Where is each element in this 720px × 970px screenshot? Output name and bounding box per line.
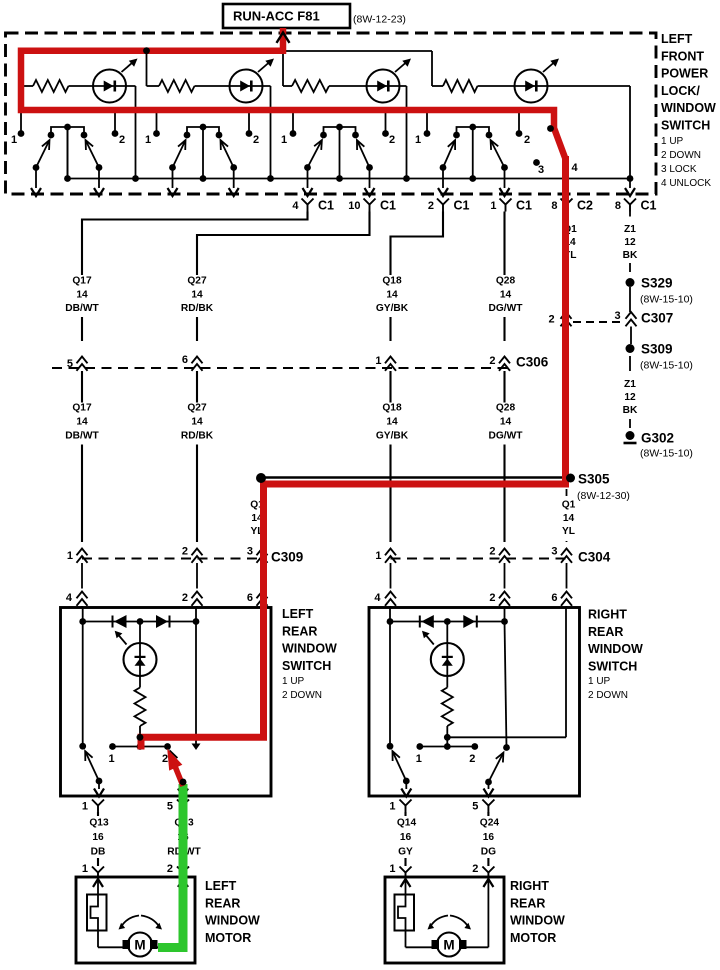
- svg-text:DB: DB: [91, 847, 106, 858]
- svg-text:6: 6: [551, 592, 557, 604]
- svg-text:16: 16: [92, 832, 104, 843]
- svg-text:1: 1: [108, 753, 114, 765]
- svg-text:DB/WT: DB/WT: [65, 303, 99, 314]
- svg-text:LEFT: LEFT: [661, 32, 693, 46]
- svg-text:(8W-12-30): (8W-12-30): [577, 490, 630, 502]
- svg-text:5: 5: [167, 801, 173, 813]
- svg-text:14: 14: [386, 290, 398, 301]
- svg-text:GY: GY: [398, 847, 413, 858]
- svg-text:1: 1: [375, 550, 381, 562]
- svg-text:C309: C309: [271, 550, 303, 565]
- svg-text:2: 2: [162, 753, 168, 765]
- svg-text:DB/WT: DB/WT: [65, 431, 99, 442]
- svg-text:2: 2: [389, 134, 395, 146]
- svg-text:M: M: [134, 938, 145, 953]
- svg-text:4: 4: [571, 162, 578, 174]
- svg-text:WINDOW: WINDOW: [661, 101, 716, 115]
- svg-text:RIGHT: RIGHT: [510, 879, 549, 893]
- svg-text:S305: S305: [578, 472, 610, 487]
- svg-text:SWITCH: SWITCH: [588, 659, 637, 673]
- svg-text:MOTOR: MOTOR: [510, 931, 556, 945]
- svg-text:C2: C2: [577, 199, 593, 213]
- svg-text:1: 1: [11, 134, 17, 146]
- svg-text:2 DOWN: 2 DOWN: [588, 690, 628, 701]
- svg-text:DG/WT: DG/WT: [489, 431, 524, 442]
- svg-text:REAR: REAR: [282, 624, 317, 638]
- svg-text:1 UP: 1 UP: [588, 676, 611, 687]
- svg-text:14: 14: [76, 290, 88, 301]
- svg-text:1: 1: [281, 134, 287, 146]
- svg-text:C1: C1: [380, 199, 396, 213]
- svg-text:Q18: Q18: [382, 403, 402, 414]
- svg-text:3: 3: [614, 310, 620, 322]
- svg-text:WINDOW: WINDOW: [510, 914, 565, 928]
- svg-text:4: 4: [66, 592, 73, 604]
- svg-text:1 UP: 1 UP: [661, 136, 684, 147]
- svg-text:1: 1: [416, 753, 422, 765]
- svg-text:RD/BK: RD/BK: [181, 303, 214, 314]
- svg-text:RD/BK: RD/BK: [181, 431, 214, 442]
- svg-text:1: 1: [375, 355, 381, 367]
- svg-text:12: 12: [624, 237, 636, 248]
- svg-text:Q28: Q28: [496, 403, 516, 414]
- svg-text:1: 1: [67, 550, 73, 562]
- svg-text:12: 12: [624, 392, 636, 403]
- svg-text:5: 5: [472, 801, 478, 813]
- svg-text:14: 14: [500, 290, 512, 301]
- svg-text:16: 16: [400, 832, 412, 843]
- svg-text:G302: G302: [641, 431, 674, 446]
- svg-text:Q28: Q28: [496, 276, 516, 287]
- svg-text:2: 2: [489, 592, 495, 604]
- svg-text:C1: C1: [454, 199, 470, 213]
- svg-text:BK: BK: [623, 250, 638, 261]
- svg-text:(8W-12-23): (8W-12-23): [353, 14, 406, 26]
- svg-text:1: 1: [389, 801, 395, 813]
- svg-text:(8W-15-10): (8W-15-10): [640, 294, 693, 306]
- svg-text:14: 14: [76, 417, 88, 428]
- svg-text:16: 16: [483, 832, 495, 843]
- svg-text:6: 6: [182, 354, 188, 366]
- svg-text:4: 4: [292, 200, 299, 212]
- svg-text:WINDOW: WINDOW: [588, 642, 643, 656]
- svg-text:S309: S309: [641, 342, 673, 357]
- svg-text:Q13: Q13: [89, 818, 109, 829]
- svg-text:Q27: Q27: [187, 403, 207, 414]
- svg-text:C304: C304: [578, 550, 611, 565]
- svg-text:Q18: Q18: [382, 276, 402, 287]
- svg-text:LOCK/: LOCK/: [661, 84, 700, 98]
- svg-text:2: 2: [119, 134, 125, 146]
- svg-text:2: 2: [472, 863, 478, 875]
- svg-text:1: 1: [145, 134, 151, 146]
- svg-text:2: 2: [469, 753, 475, 765]
- svg-text:8: 8: [615, 200, 621, 212]
- svg-text:8: 8: [551, 200, 557, 212]
- svg-text:1 UP: 1 UP: [282, 676, 305, 687]
- svg-text:M: M: [443, 938, 454, 953]
- svg-text:2: 2: [489, 546, 495, 558]
- svg-text:LEFT: LEFT: [282, 607, 314, 621]
- svg-text:Q14: Q14: [397, 818, 417, 829]
- svg-text:Q17: Q17: [72, 403, 92, 414]
- svg-text:1: 1: [415, 134, 421, 146]
- svg-text:14: 14: [386, 417, 398, 428]
- svg-text:3 LOCK: 3 LOCK: [661, 164, 697, 175]
- svg-text:1: 1: [490, 200, 496, 212]
- svg-text:WINDOW: WINDOW: [282, 642, 337, 656]
- svg-text:DG: DG: [481, 847, 496, 858]
- svg-text:(8W-15-10): (8W-15-10): [640, 448, 693, 460]
- svg-text:(8W-15-10): (8W-15-10): [640, 360, 693, 372]
- svg-text:2: 2: [253, 134, 259, 146]
- svg-text:14: 14: [500, 417, 512, 428]
- svg-text:RUN-ACC F81: RUN-ACC F81: [233, 9, 320, 24]
- svg-text:2: 2: [428, 200, 434, 212]
- svg-text:GY/BK: GY/BK: [376, 303, 409, 314]
- svg-text:2: 2: [167, 863, 173, 875]
- svg-text:1: 1: [389, 863, 395, 875]
- svg-text:Q17: Q17: [72, 276, 92, 287]
- svg-text:14: 14: [191, 417, 203, 428]
- svg-text:C1: C1: [641, 199, 657, 213]
- svg-text:WINDOW: WINDOW: [205, 914, 260, 928]
- svg-text:Q1: Q1: [562, 500, 576, 511]
- svg-text:C1: C1: [318, 199, 334, 213]
- svg-text:DG/WT: DG/WT: [489, 303, 524, 314]
- svg-text:Q27: Q27: [187, 276, 207, 287]
- svg-text:1: 1: [82, 801, 88, 813]
- svg-text:REAR: REAR: [205, 896, 240, 910]
- svg-text:LEFT: LEFT: [205, 879, 237, 893]
- svg-text:C1: C1: [516, 199, 532, 213]
- svg-text:Z1: Z1: [624, 224, 636, 235]
- svg-text:BK: BK: [623, 405, 638, 416]
- svg-text:C306: C306: [516, 355, 549, 370]
- svg-text:6: 6: [247, 592, 253, 604]
- svg-text:MOTOR: MOTOR: [205, 931, 251, 945]
- svg-text:RIGHT: RIGHT: [588, 608, 627, 622]
- svg-text:14: 14: [191, 290, 203, 301]
- svg-text:2: 2: [548, 314, 554, 326]
- svg-text:C307: C307: [641, 311, 673, 326]
- svg-text:2: 2: [182, 546, 188, 558]
- svg-text:1: 1: [82, 863, 88, 875]
- svg-text:4: 4: [374, 592, 381, 604]
- svg-text:4 UNLOCK: 4 UNLOCK: [661, 178, 711, 189]
- svg-text:3: 3: [247, 546, 253, 558]
- svg-text:Q24: Q24: [480, 818, 500, 829]
- svg-text:3: 3: [538, 164, 544, 176]
- svg-text:YL: YL: [562, 526, 575, 537]
- svg-text:FRONT: FRONT: [661, 49, 704, 63]
- svg-text:5: 5: [67, 358, 73, 370]
- svg-text:2 DOWN: 2 DOWN: [661, 150, 701, 161]
- svg-text:S329: S329: [641, 276, 673, 291]
- svg-text:SWITCH: SWITCH: [661, 119, 710, 133]
- svg-text:2: 2: [524, 134, 530, 146]
- svg-text:POWER: POWER: [661, 67, 708, 81]
- svg-text:14: 14: [563, 513, 575, 524]
- svg-text:SWITCH: SWITCH: [282, 659, 331, 673]
- svg-text:3: 3: [551, 546, 557, 558]
- svg-text:2: 2: [182, 592, 188, 604]
- svg-text:2 DOWN: 2 DOWN: [282, 690, 322, 701]
- svg-text:Z1: Z1: [624, 379, 636, 390]
- svg-text:10: 10: [348, 200, 360, 212]
- svg-text:GY/BK: GY/BK: [376, 431, 409, 442]
- svg-text:REAR: REAR: [510, 896, 545, 910]
- svg-text:2: 2: [489, 355, 495, 367]
- svg-text:REAR: REAR: [588, 625, 623, 639]
